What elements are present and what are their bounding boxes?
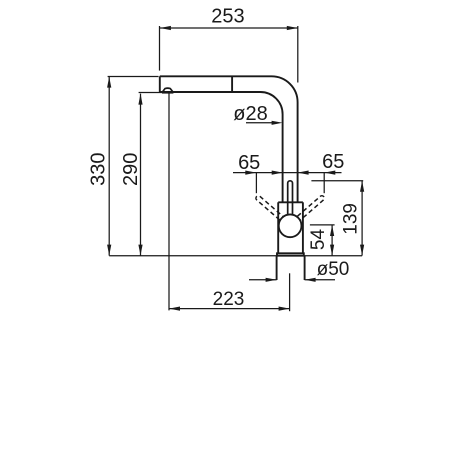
svg-text:65: 65	[238, 152, 260, 174]
dim 65 left extension	[255, 173, 257, 194]
deck line	[109, 255, 362, 257]
svg-text:ø50: ø50	[317, 259, 350, 280]
dashed lever (left tilt)	[255, 195, 288, 225]
spout top outline with outer corner into downtube right edge	[160, 76, 298, 202]
arrow o28 leader	[272, 121, 283, 125]
dim 253 line	[160, 27, 298, 29]
svg-text:330: 330	[88, 153, 110, 186]
svg-text:139: 139	[341, 203, 362, 235]
spout bottom outline with inner corner into downtube left edge	[160, 92, 283, 202]
dim 253 left extension	[159, 26, 161, 71]
arrow 65R inner (points left into tube edge)	[298, 171, 309, 175]
body right side	[302, 202, 304, 253]
arrow 330 down	[107, 245, 111, 256]
aerator bump	[162, 88, 173, 92]
dim 54 line	[331, 225, 333, 256]
lever rod (vertical position)	[288, 181, 293, 215]
dim 54 top extension	[310, 224, 335, 226]
arrow 54 up	[330, 225, 334, 236]
dim 139 top extension	[311, 180, 363, 182]
spout tip left edge	[159, 76, 161, 92]
arrow 290 up	[138, 94, 142, 105]
shank right edge	[304, 256, 306, 280]
dim o50 left line	[249, 279, 277, 281]
arrow 54 down	[330, 245, 334, 256]
arrow 290 down	[138, 245, 142, 256]
ext tip vertical (spout tip centerline down)	[168, 93, 170, 311]
svg-text:65: 65	[322, 151, 344, 173]
svg-text:ø28: ø28	[233, 103, 267, 125]
spray head seam	[231, 76, 233, 92]
body housing top	[278, 201, 303, 203]
arrow 139 down	[360, 245, 364, 256]
svg-text:54: 54	[308, 229, 329, 251]
dim 223 line	[169, 308, 290, 310]
arrow 139 up	[360, 181, 364, 192]
leader o28	[246, 122, 273, 124]
svg-text:253: 253	[211, 6, 244, 28]
arrow 253 right	[287, 26, 298, 30]
body left side	[277, 202, 279, 253]
dim o50 right line	[305, 279, 335, 281]
dim 330 top extension	[108, 76, 159, 78]
arrow o50 right (points left)	[305, 278, 316, 282]
dim 290 top extension	[139, 92, 164, 94]
shank left edge	[276, 256, 278, 280]
dashed lever (right tilt)	[292, 195, 325, 225]
base flange	[277, 253, 304, 255]
arrow o50 left (points right)	[266, 278, 277, 282]
dim 253 right extension	[297, 26, 299, 83]
arrow 223 right	[279, 307, 290, 311]
ball joint	[279, 214, 302, 237]
arrow 223 left	[169, 307, 180, 311]
dim 290 line	[140, 94, 142, 256]
ext body centerline below base	[289, 273, 291, 311]
dim 330 line	[108, 77, 110, 256]
svg-text:223: 223	[213, 289, 245, 310]
dim 65 right extension	[323, 173, 325, 194]
dim 139 line	[361, 181, 363, 256]
dim 65 65 line	[233, 172, 342, 174]
arrow 65L inner (points right into tube edge)	[272, 171, 283, 175]
arrow 65L outer (points right into ext)	[245, 171, 256, 175]
arrow 253 left	[160, 26, 171, 30]
arrow 330 up	[107, 77, 111, 88]
svg-text:290: 290	[120, 153, 142, 186]
arrow 65R outer (points left into ext)	[324, 171, 335, 175]
